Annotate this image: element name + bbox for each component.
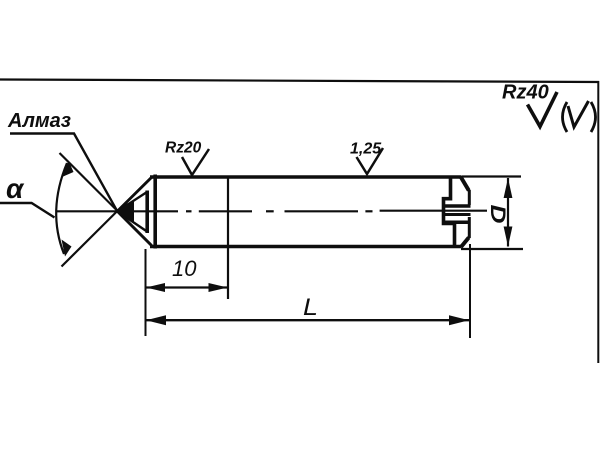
dimension 10 line bbox=[146, 286, 228, 288]
svg-text:D: D bbox=[486, 205, 510, 224]
diamond base line bbox=[145, 191, 149, 234]
slot middle line bbox=[444, 213, 471, 216]
svg-text:Rz20: Rz20 bbox=[165, 140, 202, 157]
svg-text:10: 10 bbox=[172, 256, 197, 281]
right end chamfer top bbox=[461, 177, 469, 191]
dim 10 arrow right bbox=[209, 283, 228, 292]
leader underline for alpha bbox=[0, 203, 55, 218]
slot lower side bbox=[444, 221, 471, 225]
dimension D line bbox=[507, 178, 509, 247]
diamond upper edge bbox=[117, 192, 147, 211]
svg-text:α: α bbox=[6, 173, 25, 204]
leader underline for Алмаз bbox=[10, 134, 117, 212]
angle arc arrowhead top bbox=[62, 161, 74, 178]
centerline bbox=[56, 210, 487, 213]
dimension L line bbox=[146, 319, 469, 321]
parenthesized check mark bbox=[563, 102, 568, 132]
diamond lower edge bbox=[117, 211, 147, 231]
dim D arrow bottom bbox=[504, 227, 513, 247]
angle construction line 1 (45 deg, upper-left to lower-right) bbox=[60, 153, 152, 245]
angle arc arrowhead bottom bbox=[62, 240, 72, 257]
cone upper edge (heavy) bbox=[117, 177, 152, 212]
svg-text:L: L bbox=[303, 294, 318, 321]
dimension L right extension line bbox=[469, 244, 471, 338]
dim L arrow left bbox=[146, 315, 166, 325]
dimension D top extension line bbox=[462, 175, 521, 177]
ground zone boundary line x=228 bbox=[227, 177, 229, 299]
svg-text:Алмаз: Алмаз bbox=[7, 110, 71, 132]
body top edge bbox=[150, 175, 462, 179]
right end chamfer bottom bbox=[461, 238, 469, 248]
slot bottom zigzag bbox=[444, 177, 455, 247]
dim D arrow top bbox=[504, 178, 513, 198]
dim 10 arrow left bbox=[146, 283, 165, 292]
dimension D bottom extension line bbox=[461, 248, 523, 250]
diamond filled wedge at apex bbox=[116, 201, 135, 223]
right end face bottom segment bbox=[468, 217, 471, 238]
angle construction line 2 (-45 deg, lower-left to upper-right) bbox=[62, 178, 152, 267]
body left face bbox=[153, 175, 157, 249]
angle arc bbox=[56, 163, 67, 254]
dim L arrow right bbox=[449, 315, 469, 325]
body bottom edge bbox=[150, 245, 462, 249]
svg-text:Rz40: Rz40 bbox=[502, 82, 549, 104]
drawing frame right border bbox=[597, 81, 599, 363]
cone lower edge (heavy) bbox=[117, 211, 152, 246]
slot upper side bbox=[444, 204, 471, 208]
drawing frame top border bbox=[0, 80, 599, 83]
right end face top segment bbox=[468, 190, 471, 205]
dimension 10 left extension line bbox=[145, 249, 147, 336]
